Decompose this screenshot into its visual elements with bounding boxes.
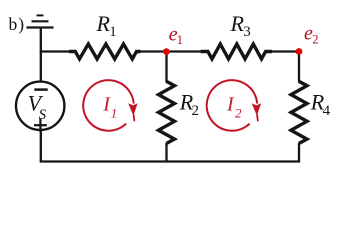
- svg-text:1: 1: [111, 106, 118, 121]
- svg-text:R: R: [96, 11, 111, 36]
- svg-text:I: I: [226, 94, 235, 116]
- svg-text:1: 1: [177, 33, 183, 47]
- voltage source Vs: [16, 82, 64, 130]
- wire: source bottom to bottom rail: [40, 130, 42, 162]
- resistor R2: [159, 81, 175, 143]
- svg-text:3: 3: [243, 24, 251, 40]
- resistor R1: [69, 44, 141, 59]
- minus sign inside source: [34, 88, 47, 91]
- mesh current loop I1 arrowhead: [128, 103, 137, 116]
- resistor R4: [291, 81, 307, 143]
- wire: bottom rail: [40, 160, 300, 162]
- mesh current loop I2 arc: [207, 80, 258, 131]
- wire: top rail middle segment: [140, 50, 202, 52]
- wire: left vertical (ground stub to source top): [40, 28, 42, 82]
- mesh current loop I1 arc: [83, 80, 134, 131]
- svg-text:b): b): [9, 14, 26, 34]
- wire: top rail right segment: [271, 50, 299, 52]
- wire: e2 down to R4: [298, 50, 300, 82]
- svg-text:1: 1: [109, 24, 117, 40]
- ground: [27, 15, 54, 27]
- wire: e1 down to R2: [165, 50, 167, 82]
- wire: R4 down to bottom rail: [298, 143, 300, 162]
- svg-text:2: 2: [192, 103, 200, 119]
- resistor R3: [201, 44, 272, 59]
- wire: top rail left segment: [40, 50, 70, 52]
- svg-text:2: 2: [312, 33, 318, 47]
- node e1: [163, 48, 170, 55]
- node e2: [296, 48, 303, 55]
- wire: R2 down to bottom rail: [165, 143, 167, 162]
- plus sign at source bottom: [34, 119, 47, 132]
- mesh current loop I2 arrowhead: [252, 103, 261, 116]
- svg-text:2: 2: [235, 106, 242, 121]
- svg-text:4: 4: [323, 103, 331, 119]
